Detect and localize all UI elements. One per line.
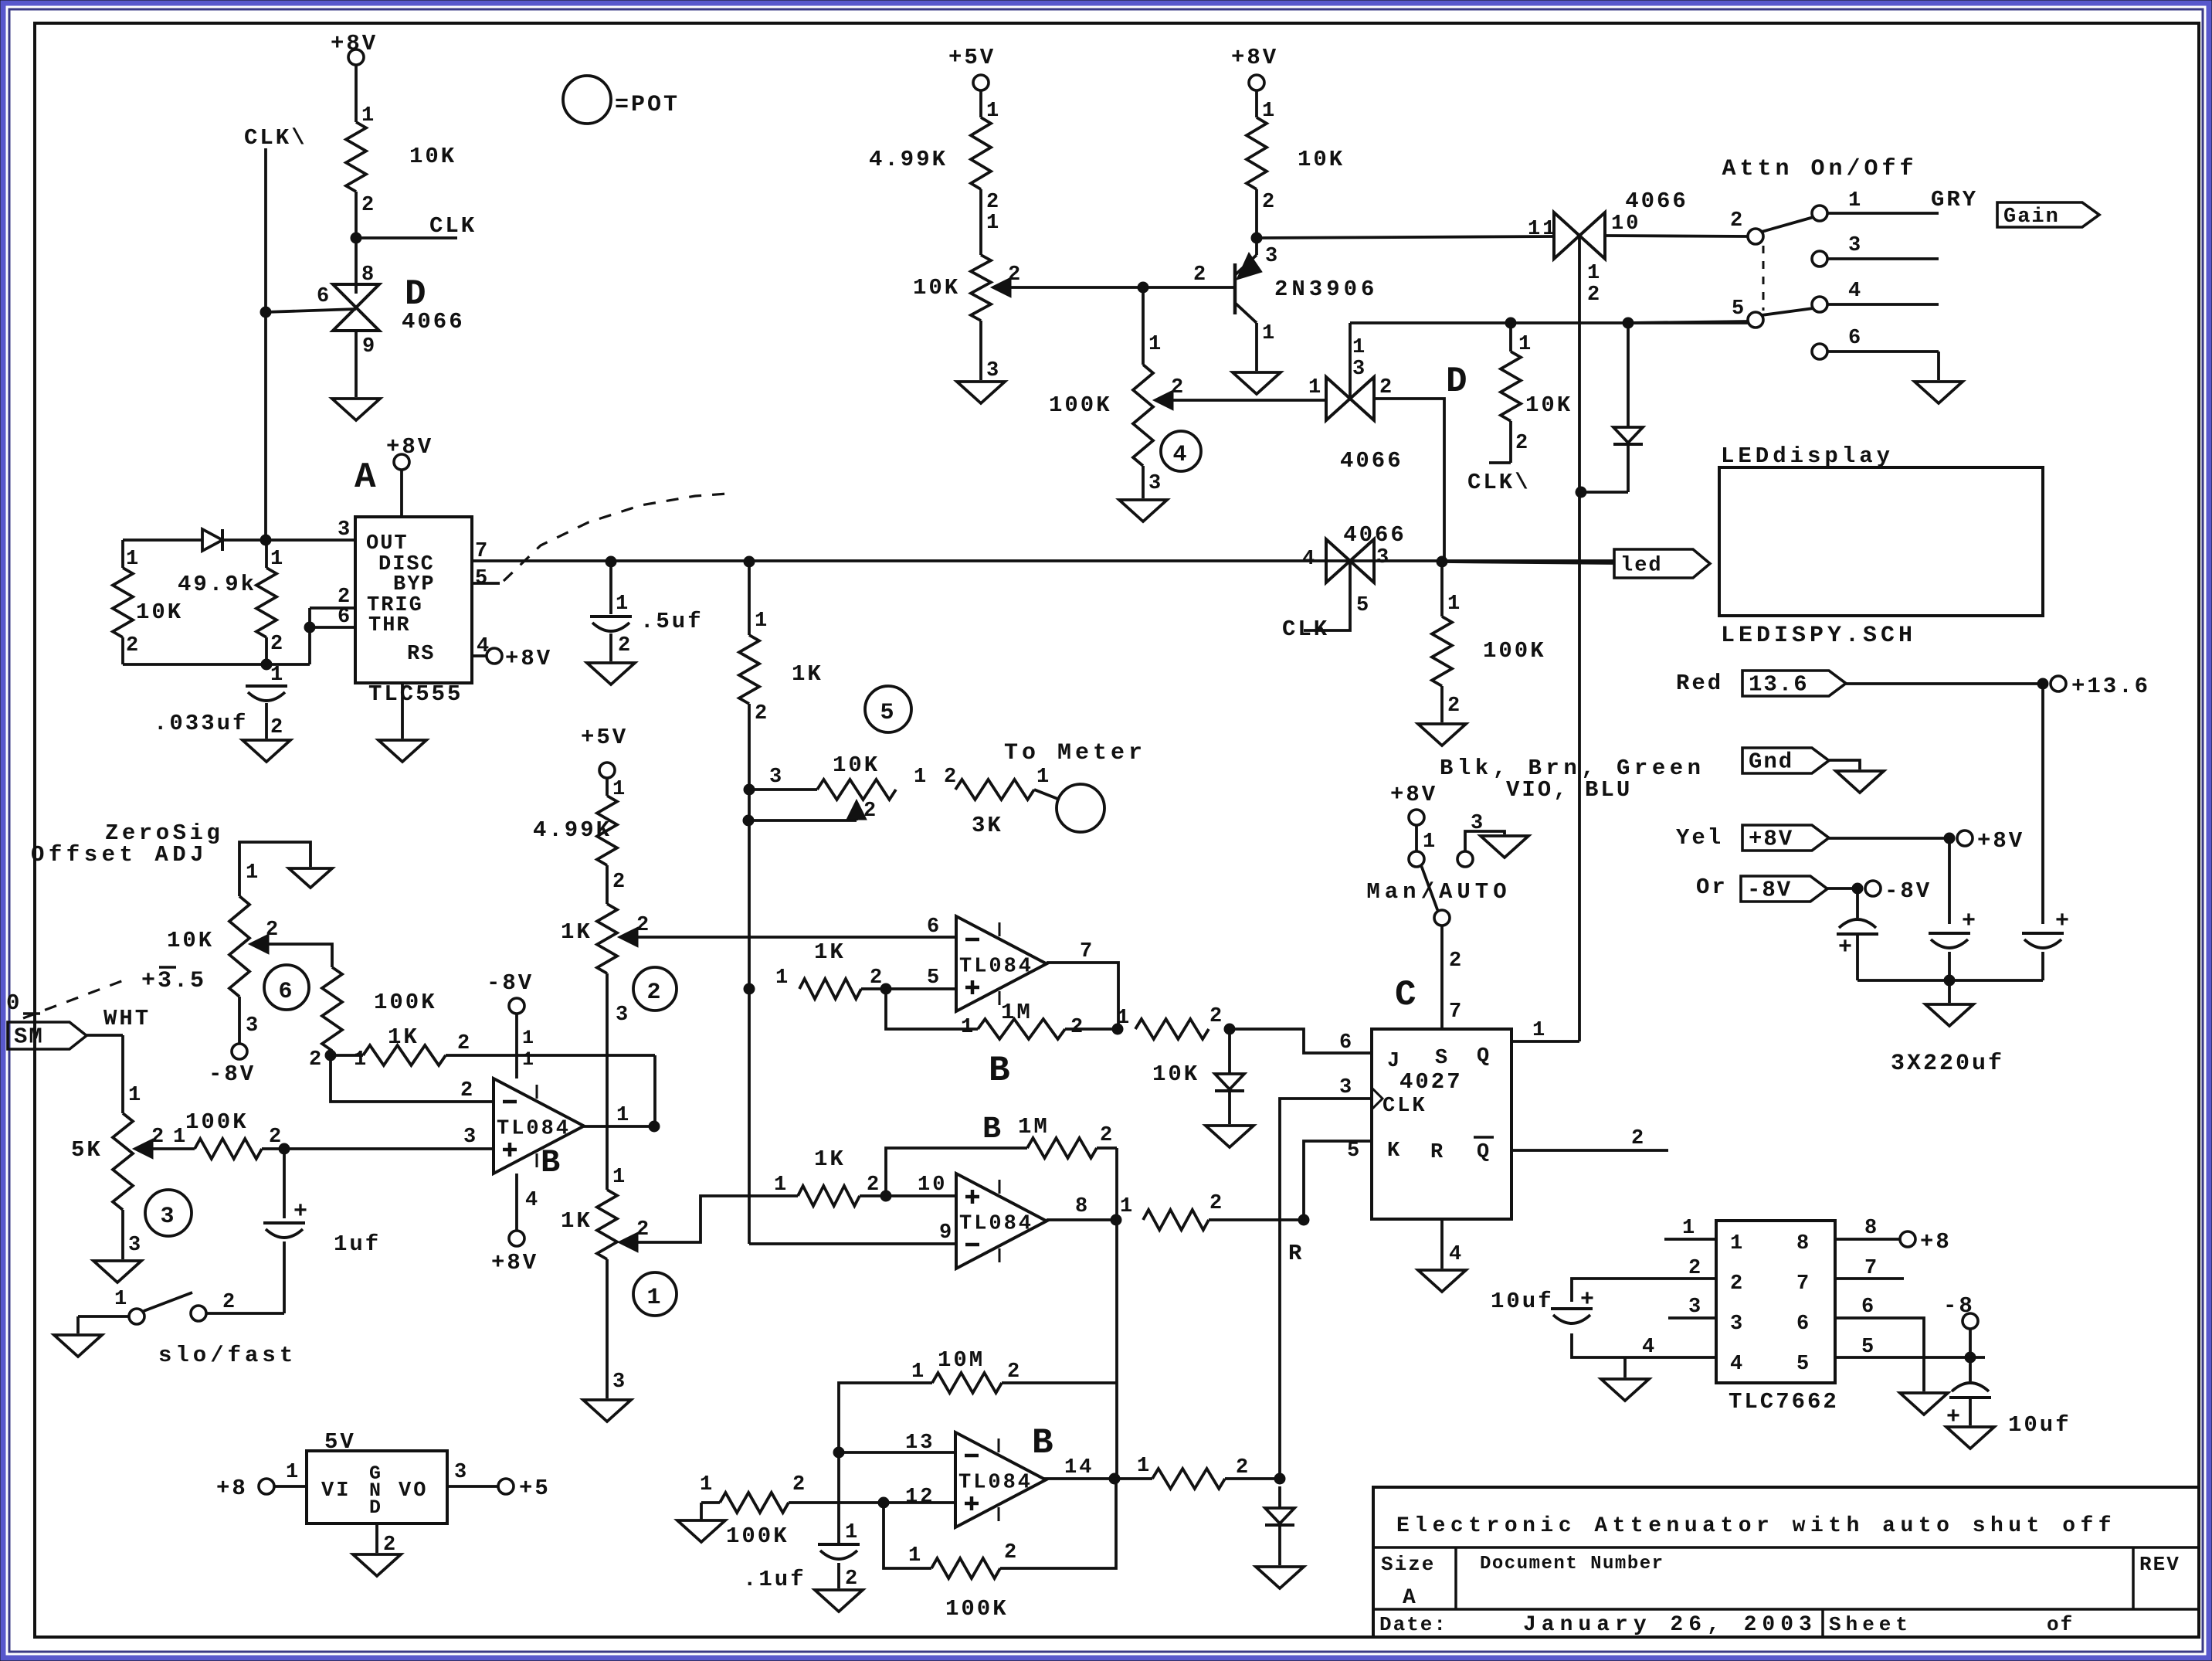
svg-text:+: + [2055,909,2071,935]
svg-text:+8V: +8V [491,1250,538,1275]
svg-text:9: 9 [362,335,377,358]
svg-text:1: 1 [986,100,1001,123]
svg-text:Sheet: Sheet [1829,1613,1912,1636]
svg-text:2: 2 [1008,263,1023,287]
svg-text:REV: REV [2139,1553,2180,1576]
svg-text:2: 2 [646,980,663,1006]
svg-text:2: 2 [1262,191,1277,214]
svg-text:1uf: 1uf [334,1231,381,1257]
svg-text:3: 3 [1148,472,1163,495]
svg-text:3: 3 [1848,234,1863,257]
svg-text:1: 1 [361,104,376,127]
svg-text:49.9k: 49.9k [178,572,256,597]
svg-text:5K: 5K [71,1137,103,1163]
svg-text:1: 1 [986,212,1001,235]
svg-text:6: 6 [1848,327,1863,350]
svg-text:+8V: +8V [386,434,433,460]
svg-text:100K: 100K [1049,392,1112,418]
svg-text:+5: +5 [519,1476,551,1501]
svg-text:+8V: +8V [1231,45,1278,70]
svg-text:100K: 100K [945,1596,1009,1622]
svg-text:2: 2 [1587,284,1602,307]
svg-text:+8V: +8V [505,646,552,671]
svg-text:10: 10 [1611,212,1640,236]
svg-text:1: 1 [1518,333,1533,356]
svg-text:7: 7 [1796,1272,1811,1296]
svg-text:VI: VI [321,1479,351,1503]
svg-text:1: 1 [1036,766,1051,789]
svg-text:5: 5 [1356,594,1371,617]
svg-text:2: 2 [1730,1272,1745,1296]
svg-text:10K: 10K [913,275,960,301]
svg-text:1: 1 [270,664,285,687]
svg-text:1: 1 [612,778,627,801]
svg-text:1: 1 [961,1016,975,1039]
svg-text:K: K [1387,1140,1402,1163]
svg-text:4.99K: 4.99K [869,147,948,172]
svg-text:100K: 100K [374,990,437,1015]
svg-text:R: R [1288,1241,1304,1266]
svg-text:3: 3 [246,1014,260,1038]
svg-text:3: 3 [1352,358,1367,381]
svg-text:TLC7662: TLC7662 [1729,1389,1839,1415]
svg-text:1: 1 [612,1166,627,1189]
svg-text:B: B [1032,1423,1056,1463]
svg-text:1: 1 [246,861,260,885]
svg-text:4066: 4066 [1343,522,1406,548]
svg-text:WHT: WHT [103,1006,151,1031]
svg-text:5: 5 [1861,1336,1876,1359]
svg-text:9: 9 [939,1221,954,1245]
svg-text:1: 1 [911,1360,926,1384]
svg-text:To Meter: To Meter [1004,740,1146,766]
svg-text:Gnd: Gnd [1749,749,1793,775]
svg-text:4: 4 [1848,280,1863,303]
svg-text:6: 6 [1861,1296,1876,1319]
svg-text:Man/AUTO: Man/AUTO [1366,879,1511,905]
svg-text:TL084: TL084 [497,1118,571,1141]
svg-text:3: 3 [986,359,1001,382]
svg-text:3: 3 [612,1371,627,1394]
svg-text:2: 2 [361,194,376,217]
svg-text:1M: 1M [1001,1000,1033,1025]
svg-text:3: 3 [616,1004,630,1027]
svg-text:14: 14 [1064,1456,1094,1479]
svg-text:6: 6 [338,606,352,629]
svg-text:S: S [1435,1047,1450,1070]
svg-text:4: 4 [1302,548,1317,571]
svg-text:1: 1 [522,1048,536,1071]
svg-text:2: 2 [1193,263,1208,287]
svg-text:3: 3 [454,1461,469,1484]
svg-text:13.6: 13.6 [1749,672,1809,698]
svg-text:A: A [1403,1586,1418,1610]
svg-text:1: 1 [616,593,630,616]
svg-text:Q: Q [1477,1141,1491,1164]
svg-text:1: 1 [774,1174,789,1197]
svg-text:2: 2 [270,716,285,739]
svg-text:2: 2 [1730,209,1745,233]
svg-text:4: 4 [1642,1336,1657,1359]
svg-text:2: 2 [1209,1005,1224,1028]
svg-text:2: 2 [986,191,1001,214]
svg-text:VIO, BLU: VIO, BLU [1506,777,1632,803]
svg-text:B: B [541,1144,562,1181]
svg-text:1: 1 [646,1285,663,1311]
svg-text:3: 3 [1471,812,1485,835]
svg-text:+5V: +5V [948,45,996,70]
svg-text:5: 5 [1732,297,1746,321]
svg-text:2: 2 [1070,1016,1085,1039]
svg-text:4: 4 [1449,1243,1464,1266]
svg-text:1: 1 [1137,1455,1152,1478]
svg-text:CLK: CLK [429,213,477,239]
svg-text:1: 1 [1730,1232,1745,1255]
svg-text:3: 3 [1265,245,1280,268]
svg-text:CLK\: CLK\ [244,125,307,151]
svg-text:1: 1 [270,548,285,571]
svg-text:slo/fast: slo/fast [158,1343,297,1368]
svg-text:100K: 100K [726,1523,789,1549]
svg-text:3: 3 [769,766,784,789]
svg-text:2: 2 [1236,1456,1250,1479]
svg-text:10K: 10K [167,928,214,953]
svg-text:2: 2 [618,634,633,657]
svg-text:-8V: -8V [1885,878,1932,904]
svg-text:8: 8 [1864,1217,1879,1240]
svg-text:1: 1 [914,766,928,789]
svg-text:B: B [989,1051,1013,1091]
svg-text:10K: 10K [1152,1061,1199,1087]
svg-text:1: 1 [1352,336,1367,359]
svg-text:5: 5 [927,966,941,990]
svg-text:2: 2 [1171,376,1186,399]
svg-text:Document Number: Document Number [1480,1554,1664,1574]
svg-text:2: 2 [1447,695,1462,718]
svg-text:6: 6 [927,915,941,939]
svg-text:3X220uf: 3X220uf [1891,1051,2004,1077]
svg-text:R: R [1430,1141,1445,1164]
svg-text:8: 8 [1796,1232,1811,1255]
svg-text:GRY: GRY [1931,187,1978,212]
svg-text:1: 1 [1262,322,1277,345]
svg-text:A: A [355,457,378,498]
svg-text:D: D [1446,362,1470,402]
svg-text:2: 2 [309,1048,324,1072]
svg-text:RS: RS [407,643,435,666]
svg-text:11: 11 [1528,218,1557,241]
svg-text:2: 2 [845,1568,860,1591]
svg-text:2: 2 [944,766,958,789]
svg-text:1M: 1M [1018,1114,1050,1140]
svg-text:1: 1 [1120,1195,1135,1218]
svg-text:led: led [1620,555,1663,578]
svg-text:SM: SM [14,1024,44,1050]
svg-text:2: 2 [636,1218,651,1242]
svg-text:CLK: CLK [1382,1095,1427,1118]
svg-text:1: 1 [1447,593,1462,616]
svg-text:10K: 10K [1298,147,1345,172]
svg-text:0: 0 [6,990,22,1016]
svg-text:THR: THR [368,614,411,637]
svg-text:7: 7 [1864,1257,1879,1280]
svg-text:7: 7 [1449,1000,1464,1024]
svg-text:CLK\: CLK\ [1467,470,1531,495]
svg-text:+8V: +8V [1977,828,2024,854]
svg-text:Electronic Attenuator with aut: Electronic Attenuator with auto shut off [1396,1514,2116,1538]
svg-text:7: 7 [1080,940,1094,963]
svg-text:5: 5 [1347,1140,1362,1163]
svg-text:1: 1 [1682,1217,1697,1240]
svg-text:.033uf: .033uf [154,711,248,736]
svg-text:LEDISPY.SCH: LEDISPY.SCH [1721,623,1916,649]
svg-text:1: 1 [700,1473,714,1496]
svg-text:2: 2 [126,634,141,657]
svg-text:.1uf: .1uf [743,1567,806,1592]
svg-text:1: 1 [1848,189,1863,212]
svg-text:1: 1 [286,1461,300,1484]
svg-text:2N3906: 2N3906 [1274,277,1378,302]
svg-text:2: 2 [222,1291,237,1314]
svg-text:4.99K: 4.99K [533,817,612,843]
svg-text:Yel: Yel [1676,825,1723,851]
svg-text:2: 2 [1007,1360,1022,1384]
svg-text:1K: 1K [388,1024,419,1050]
svg-text:10uf: 10uf [1491,1289,1554,1314]
svg-text:6: 6 [1796,1313,1811,1336]
svg-text:of: of [2047,1613,2074,1636]
svg-text:VO: VO [399,1479,428,1503]
svg-text:1K: 1K [814,1146,846,1172]
svg-text:1: 1 [845,1521,860,1544]
svg-text:3: 3 [1339,1076,1354,1099]
svg-text:TL084: TL084 [959,1213,1033,1236]
svg-text:January 26, 2003: January 26, 2003 [1523,1613,1817,1637]
svg-text:1K: 1K [814,939,846,965]
svg-text:2: 2 [1100,1124,1114,1147]
svg-text:100K: 100K [1483,638,1546,664]
svg-text:3: 3 [1688,1296,1703,1319]
svg-text:10K: 10K [833,752,880,778]
svg-text:10K: 10K [136,600,183,625]
svg-text:2: 2 [1449,949,1464,973]
svg-text:10M: 10M [938,1347,985,1373]
svg-text:+8: +8 [216,1476,248,1501]
svg-text:.5uf: .5uf [640,609,704,634]
svg-text:-8V: -8V [209,1061,256,1087]
svg-text:4066: 4066 [1625,189,1688,214]
svg-text:2: 2 [867,1174,881,1197]
svg-text:-8: -8 [1943,1293,1975,1319]
svg-text:2: 2 [270,633,285,656]
svg-text:5: 5 [1796,1353,1811,1376]
svg-text:Offset ADJ: Offset ADJ [31,842,208,868]
svg-text:1: 1 [1532,1019,1547,1042]
svg-text:1: 1 [114,1288,129,1311]
svg-text:2: 2 [1209,1192,1224,1215]
svg-text:2: 2 [755,702,769,725]
svg-text:1K: 1K [561,919,592,945]
svg-text:1: 1 [1308,376,1323,399]
svg-text:TL084: TL084 [958,1472,1033,1495]
svg-text:+13.6: +13.6 [2071,674,2150,699]
svg-text:10: 10 [918,1174,947,1197]
svg-text:4: 4 [477,635,491,658]
svg-text:B: B [982,1112,1003,1147]
svg-text:Or: Or [1696,875,1728,900]
svg-text:1: 1 [1148,333,1163,356]
svg-text:1: 1 [1587,262,1602,285]
svg-text:6: 6 [278,979,294,1005]
svg-text:3: 3 [128,1234,143,1257]
svg-text:-8V: -8V [487,970,534,996]
svg-text:100K: 100K [185,1109,249,1135]
svg-text:+5V: +5V [581,725,628,750]
svg-text:+8V: +8V [1390,782,1437,807]
svg-text:+: + [1838,935,1854,961]
svg-text:10K: 10K [409,144,456,169]
svg-text:4027: 4027 [1399,1069,1463,1095]
svg-text:1K: 1K [792,661,823,687]
svg-text:-8V: -8V [1747,878,1792,903]
svg-text:=POT: =POT [615,92,680,118]
svg-text:1: 1 [126,548,141,571]
svg-text:6: 6 [1339,1031,1354,1055]
svg-text:Q: Q [1477,1045,1491,1068]
svg-text:2: 2 [457,1032,472,1055]
svg-text:10K: 10K [1525,392,1572,418]
svg-text:TLC555: TLC555 [368,681,463,707]
svg-text:+: + [293,1199,310,1225]
svg-text:1: 1 [1262,100,1277,123]
svg-text:2: 2 [863,800,878,823]
svg-text:Date:: Date: [1379,1613,1447,1636]
svg-text:BYP: BYP [393,573,436,596]
svg-text:6: 6 [317,285,331,308]
svg-text:2: 2 [151,1126,166,1149]
svg-text:Size: Size [1381,1553,1435,1576]
svg-text:4: 4 [525,1189,540,1212]
svg-text:2: 2 [1631,1127,1646,1150]
svg-text:12: 12 [905,1486,935,1509]
svg-text:1K: 1K [561,1208,592,1234]
svg-text:1: 1 [128,1084,143,1107]
svg-text:2: 2 [266,919,280,942]
svg-text:3: 3 [338,518,352,542]
svg-text:+8V: +8V [331,31,378,56]
svg-text:1: 1 [616,1104,631,1127]
svg-text:1: 1 [775,966,790,990]
svg-text:8: 8 [1075,1195,1090,1218]
svg-text:3K: 3K [972,813,1003,838]
svg-text:+: + [1962,909,1978,935]
svg-text:3: 3 [160,1204,176,1230]
svg-text:+8V: +8V [1749,827,1793,852]
svg-text:2: 2 [1004,1541,1019,1564]
svg-text:4066: 4066 [1340,448,1403,474]
svg-text:2: 2 [1688,1257,1703,1280]
svg-text:+3.5: +3.5 [141,968,206,994]
svg-text:3: 3 [1376,546,1391,569]
svg-text:4: 4 [1172,442,1189,468]
svg-text:2: 2 [1515,432,1530,455]
svg-text:2: 2 [792,1473,807,1496]
svg-text:10uf: 10uf [2008,1412,2071,1438]
svg-text:CLK: CLK [1282,617,1329,642]
svg-text:3: 3 [1730,1313,1745,1336]
svg-text:Attn On/Off: Attn On/Off [1722,156,1917,182]
svg-text:OUT: OUT [366,532,409,555]
svg-text:1: 1 [908,1544,923,1568]
svg-text:1: 1 [755,610,769,633]
svg-text:C: C [1395,975,1419,1015]
svg-text:2: 2 [460,1079,475,1102]
svg-text:1: 1 [522,1027,536,1049]
svg-text:4: 4 [1730,1353,1745,1376]
svg-text:2: 2 [1379,376,1394,399]
svg-text:3: 3 [463,1126,478,1149]
svg-text:Gain: Gain [2003,206,2060,229]
svg-text:+8: +8 [1920,1229,1952,1255]
svg-text:D: D [369,1496,381,1519]
svg-text:TL084: TL084 [959,956,1033,979]
svg-text:2: 2 [612,871,627,894]
svg-text:LEDdisplay: LEDdisplay [1721,443,1894,469]
svg-text:5: 5 [880,700,896,726]
svg-text:1: 1 [1423,830,1437,854]
svg-text:Red: Red [1676,671,1723,696]
svg-text:4066: 4066 [402,309,465,335]
svg-text:2: 2 [636,914,651,937]
svg-text:5: 5 [475,567,490,590]
